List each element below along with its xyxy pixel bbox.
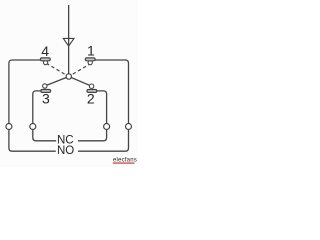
pin label 3 [42,90,50,106]
NO bus wire left (post 4 side) [9,130,56,152]
wire terminal 1 to right outer post [95,60,128,123]
dashed link pivot to contact 4 [46,63,68,76]
terminal 2 fixed contact [87,84,97,92]
NC bus wire left (post 3 side) [33,130,56,141]
svg-text:1: 1 [87,43,95,59]
right inner solder post [104,124,110,130]
actuator arrow shaft [63,5,74,74]
NO bus wire right (post 1 side) [78,130,129,152]
movable arm pivot to contact 2 [69,77,92,87]
wire terminal 2 to right inner post [97,91,107,124]
svg-text:4: 4 [41,43,49,59]
wire terminal 4 to left outer post [9,60,41,123]
left outer solder post [6,124,12,130]
svg-text:2: 2 [87,90,95,106]
pin label 1 [87,43,95,59]
terminal 3 fixed contact [41,84,51,93]
right outer solder post [126,124,132,130]
dashed link pivot to contact 1 [69,63,91,76]
net label NO [57,145,74,157]
pin label 4 [41,43,49,59]
watermark [113,158,137,164]
pivot common contact circle [66,74,71,79]
left inner solder post [30,124,36,130]
svg-text:NO: NO [57,145,74,157]
movable arm pivot to contact 3 [45,77,69,87]
terminal 4 fixed contact [40,58,50,65]
pin label 2 [87,90,95,106]
net label NC [57,135,74,147]
NC bus wire right (post 2 side) [78,130,107,141]
svg-text:3: 3 [42,90,50,106]
wire terminal 3 to left inner post [33,91,41,124]
terminal 1 fixed contact [85,58,95,65]
